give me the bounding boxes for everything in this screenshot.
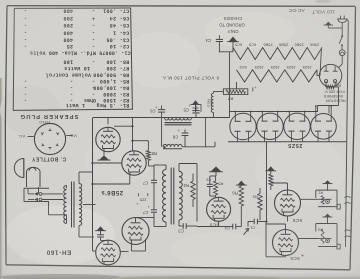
speaker plug circle bbox=[34, 123, 65, 154]
output tube 25B6 V2 bbox=[122, 151, 146, 175]
volume control R6 bbox=[237, 181, 245, 186]
junction bbox=[163, 146, 165, 148]
line switch bbox=[341, 35, 343, 37]
wire pilot drop bbox=[205, 118, 207, 147]
input tube 6C5 A bbox=[275, 190, 301, 216]
wire driver plate bbox=[196, 164, 198, 222]
wire T3 top bbox=[136, 216, 155, 218]
speaker field wire bbox=[38, 187, 40, 194]
ballast tube socket bbox=[319, 64, 341, 86]
resistor R5 bbox=[214, 181, 218, 195]
fuse bbox=[339, 50, 345, 56]
heater string row2 bbox=[237, 70, 318, 82]
filter choke horizontal bbox=[165, 118, 192, 120]
resistor R5 input bbox=[269, 174, 273, 186]
wire T3 bottom bbox=[131, 245, 133, 252]
wire plug down bbox=[328, 27, 342, 29]
output transformer T2 bbox=[64, 186, 67, 224]
wire line top bbox=[219, 51, 230, 53]
wire interstage leads bbox=[165, 165, 167, 170]
wire plug to line return bbox=[347, 19, 348, 22]
ground arrow under T1 bbox=[99, 155, 109, 160]
border frame bbox=[7, 5, 355, 8]
wire left bus bbox=[92, 118, 94, 252]
output tube 25B6 V3 bbox=[122, 218, 149, 245]
wire bus vertical bbox=[229, 52, 231, 118]
volume wiper arrow bbox=[244, 229, 249, 236]
wire input tube A bbox=[287, 183, 289, 190]
ground cap at T4 bbox=[97, 226, 105, 231]
wire T1 top bbox=[107, 118, 109, 125]
resistor R4 bbox=[191, 181, 195, 200]
field coil bbox=[211, 93, 213, 112]
wire T4 bbox=[107, 239, 109, 241]
wire T2 top bbox=[132, 118, 134, 151]
heater string row1 bbox=[233, 48, 322, 60]
R9 resistor bbox=[326, 85, 335, 88]
speaker field housing bbox=[27, 167, 41, 187]
resistor R2 bbox=[258, 194, 262, 211]
wire R9 dogleg to bus bbox=[334, 86, 339, 88]
speaker contact arrows bbox=[28, 193, 34, 195]
wire bbox=[66, 186, 68, 189]
line return wire bbox=[346, 21, 349, 248]
output tube 25B6 V1 bbox=[96, 127, 120, 151]
rectifier 25Z5 V7 bbox=[284, 113, 310, 139]
input tube 6C5 B bbox=[273, 230, 299, 256]
rectifier top bus bbox=[230, 111, 319, 113]
wire T2 plate to transformer bbox=[93, 162, 122, 164]
wire jack B to grid bbox=[299, 238, 319, 240]
rectifier 25Z5 V6 bbox=[257, 113, 283, 139]
capacitor C3 bbox=[182, 223, 184, 229]
input jack R1 bbox=[324, 180, 331, 183]
wire T1 plate link bbox=[114, 125, 133, 127]
wire heater row2 left bbox=[236, 82, 238, 89]
rectifier bottom bus bbox=[228, 141, 347, 143]
speaker terminal rails bbox=[24, 187, 49, 189]
pilot lamp bbox=[192, 100, 199, 104]
wire input tube B bbox=[285, 224, 287, 230]
output tube 25B6 V4 bbox=[96, 240, 121, 265]
resistor R7 box bbox=[223, 89, 247, 95]
capacitor at R7 right bbox=[252, 88, 254, 92]
filter choke 2 bbox=[163, 144, 182, 146]
parts table box bbox=[13, 8, 132, 110]
driver tube 6C5 bbox=[207, 197, 231, 221]
wire T2 bottom bbox=[129, 175, 131, 184]
interstage transformer T3 bbox=[162, 170, 166, 223]
wire T1 bottom bbox=[103, 152, 105, 156]
rectifier 25Z5 V8 bbox=[311, 114, 337, 140]
rectifier 25Z5 V5 bbox=[230, 113, 256, 139]
stray dot bbox=[302, 255, 304, 257]
wire jack A to grid bbox=[301, 198, 319, 200]
input jack R3 bbox=[324, 214, 331, 217]
capacitor C1 bbox=[253, 219, 255, 225]
chassis ground arrow bbox=[229, 37, 238, 42]
line plug bbox=[338, 19, 347, 23]
B+ rail bbox=[93, 117, 230, 119]
plug ground arrow bbox=[325, 22, 331, 25]
speaker cone bbox=[14, 159, 24, 178]
resistor R8 bbox=[133, 140, 149, 142]
ground driver cathode bbox=[211, 166, 222, 171]
